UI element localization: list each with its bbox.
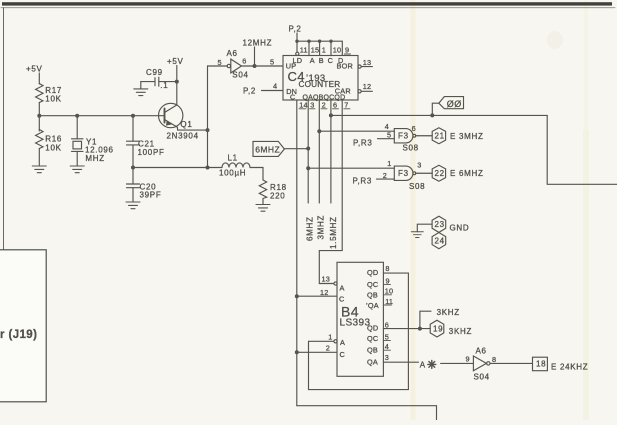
svg-text:QB: QB (367, 291, 378, 300)
svg-text:A: A (420, 360, 426, 369)
wire R18 to ground (262, 199, 264, 205)
C4 pin 10 (C) (330, 41, 332, 55)
resistor R16 (38, 116, 40, 131)
ground (node 23) (411, 232, 423, 238)
svg-text:F3: F3 (398, 132, 409, 141)
node hexagon 22 E6MHZ (432, 165, 445, 181)
svg-text:7: 7 (344, 101, 348, 110)
svg-text:S08: S08 (403, 144, 419, 153)
wire +5V to R17 (38, 73, 40, 84)
C4 pin 12 (CAR) (358, 90, 361, 93)
svg-text:C99: C99 (146, 68, 163, 77)
and-gate F3a (S08) (394, 129, 413, 143)
svg-text:’QA: ’QA (366, 301, 379, 310)
svg-text:A: A (310, 56, 315, 65)
svg-text:24: 24 (435, 237, 445, 246)
svg-text:QD: QD (367, 268, 378, 277)
svg-text:12: 12 (363, 82, 372, 91)
svg-text:3: 3 (385, 353, 389, 362)
svg-text:9: 9 (466, 354, 470, 363)
net QA vertical wire (307, 100, 309, 203)
svg-text:BOR: BOR (337, 62, 353, 71)
svg-text:21: 21 (435, 132, 445, 141)
ground (C20) (126, 202, 140, 209)
svg-text:S04: S04 (474, 373, 490, 382)
svg-text:A: A (340, 284, 345, 293)
svg-text:QC: QC (367, 334, 378, 343)
svg-text:5: 5 (218, 58, 222, 67)
resistor R18 (259, 180, 266, 199)
ground (R18) (256, 205, 270, 212)
svg-text:ØØ: ØØ (447, 99, 462, 109)
wire QB to gate F3a input 4 (319, 130, 394, 132)
wire emitter node to L1 (133, 167, 222, 169)
svg-text:18: 18 (536, 360, 546, 369)
svg-text:+5V: +5V (26, 65, 43, 74)
and-gate F3b (S08) (394, 166, 413, 180)
svg-text:QD: QD (367, 324, 378, 333)
wire F3b to node 22 (416, 172, 433, 174)
wire P,2 to load bus (296, 33, 298, 41)
svg-text:6: 6 (333, 101, 337, 110)
svg-text:QC: QC (367, 280, 378, 289)
svg-text:220: 220 (270, 192, 285, 201)
top thick border bar (2, 2, 612, 5)
svg-text:A6: A6 (227, 49, 238, 58)
svg-text:C: C (290, 94, 295, 101)
C4 pin 1 (B) (319, 41, 321, 55)
svg-text:GND: GND (450, 224, 470, 233)
bottom route net C (297, 406, 437, 420)
C4 pin 11 (LD) (296, 41, 298, 52)
svg-text:r (J19): r (J19) (0, 329, 37, 341)
svg-text:3KHZ: 3KHZ (449, 327, 472, 336)
svg-text:C: C (339, 295, 344, 304)
main bias bus wire (39, 115, 164, 117)
svg-text:6MHZ: 6MHZ (255, 145, 280, 155)
wire R17 to bus (38, 103, 40, 116)
svg-text:6: 6 (242, 56, 246, 65)
svg-text:F3: F3 (398, 169, 409, 178)
node hexagon 24 (432, 233, 446, 249)
svg-text:10K: 10K (45, 95, 61, 104)
node hexagon 19 3KHZ (430, 320, 444, 337)
ground (Y1) (70, 166, 84, 173)
svg-text:13: 13 (363, 58, 372, 67)
svg-text:2: 2 (383, 171, 387, 180)
svg-text:3: 3 (417, 161, 421, 170)
C4 load/preset pin bus (297, 40, 342, 42)
svg-text:Q1: Q1 (180, 120, 192, 129)
svg-text:S04: S04 (232, 71, 248, 80)
LD pin bubble (296, 52, 299, 55)
svg-text:100PF: 100PF (138, 148, 165, 157)
flag phi-phi (432, 103, 439, 115)
wire QA to gate F3b input 1 (308, 167, 394, 169)
capacitor C20 (131, 166, 135, 170)
wire inverter output to C4 UP pin (242, 65, 284, 67)
B4 pin 13 (A) bubble (334, 282, 337, 285)
counter C4 body (283, 56, 358, 101)
wire emitter node to inverter input (208, 65, 228, 67)
C4 pin 13 (BOR) (358, 65, 361, 68)
phi wire (QC to right edge) (331, 114, 547, 116)
svg-text:.1: .1 (160, 81, 168, 90)
net QD vertical wire + jog to B4 pin 13 (319, 100, 342, 284)
ground (C99) (140, 82, 142, 89)
node box 18 E24KHZ (533, 357, 548, 371)
svg-text:2N3904: 2N3904 (167, 132, 199, 141)
svg-text:B: B (319, 56, 324, 65)
svg-text:R16: R16 (45, 135, 62, 144)
svg-text:6: 6 (385, 320, 389, 329)
svg-text:LS393: LS393 (340, 318, 371, 329)
svg-text:A6: A6 (476, 347, 487, 356)
node hexagon 23 GND (432, 216, 446, 232)
svg-text:5: 5 (385, 332, 389, 341)
wire node 23 to ground (417, 224, 432, 232)
svg-text:10: 10 (385, 287, 394, 296)
svg-text:QA: QA (367, 358, 378, 367)
svg-text:6MHZ: 6MHZ (305, 216, 314, 241)
svg-text:5: 5 (387, 131, 391, 140)
flag 6MHZ (253, 141, 284, 156)
wire L1 to R18 (250, 168, 263, 181)
svg-text:P,2: P,2 (289, 25, 302, 34)
top thin border line (1, 7, 615, 9)
svg-text:C: C (328, 56, 333, 65)
wire inverter to box 18 (490, 362, 533, 364)
counter B4 body (337, 262, 383, 376)
svg-text:P,R3: P,R3 (353, 139, 373, 148)
svg-text:4: 4 (273, 82, 277, 91)
svg-text:1: 1 (387, 159, 391, 168)
svg-text:2: 2 (322, 101, 326, 110)
net C (clock) vertical wire (296, 100, 298, 406)
svg-text:QB: QB (367, 346, 378, 355)
svg-text:S08: S08 (409, 182, 425, 191)
net QC vertical wire (330, 100, 332, 203)
left border line (3, 8, 5, 250)
svg-text:100µH: 100µH (219, 169, 246, 178)
paper crease left (411, 0, 416, 420)
wire R16 to ground (38, 149, 40, 167)
C4 pin 15 (A) (308, 41, 310, 55)
svg-text:12: 12 (320, 288, 329, 297)
svg-text:9: 9 (345, 46, 349, 55)
B4 pin 12 (C) wire from net C (295, 294, 299, 298)
wire 6MHZ flag to QA net (284, 148, 308, 150)
svg-text:39PF: 39PF (140, 191, 162, 200)
svg-text:14: 14 (299, 101, 308, 110)
net QB vertical wire (318, 100, 320, 203)
svg-text:3KHZ: 3KHZ (437, 308, 460, 317)
svg-text:5: 5 (270, 58, 274, 67)
B4 pin 1 (A) bubble + cascade wire from pin 8 (334, 340, 337, 343)
svg-text:2: 2 (326, 344, 330, 353)
svg-text:MHZ: MHZ (85, 154, 104, 163)
B4 pin 2 (C) wire from net C (295, 350, 299, 354)
svg-text:19: 19 (433, 325, 443, 334)
svg-text:8: 8 (385, 264, 389, 273)
C4 pin 9 (D) (341, 41, 343, 55)
smudge (547, 31, 563, 49)
stub label 3KHZ (420, 311, 431, 328)
wire F3a to node 21 (416, 135, 433, 137)
svg-text:10K: 10K (45, 144, 61, 153)
crystal Y1 (76, 116, 78, 139)
svg-text:1.5MHZ: 1.5MHZ (329, 216, 338, 249)
svg-text:L1: L1 (228, 154, 238, 163)
svg-text:E 24KHZ: E 24KHZ (551, 363, 588, 372)
svg-text:A: A (340, 338, 345, 347)
svg-text:+5V: +5V (167, 57, 184, 66)
svg-text:3: 3 (310, 101, 314, 110)
svg-text:22: 22 (435, 169, 445, 178)
emitter node vertical wire (206, 128, 210, 132)
svg-text:1: 1 (322, 46, 326, 55)
svg-text:11: 11 (300, 46, 308, 55)
node hexagon 21 E3MHZ (432, 128, 445, 144)
capacitor C21 (132, 116, 134, 142)
ground (R16) (32, 166, 46, 173)
resistor R17 (36, 84, 43, 103)
svg-text:C: C (340, 350, 345, 359)
svg-text:15: 15 (311, 46, 320, 55)
paper crease right (583, 130, 589, 420)
label box (J19) (0, 250, 46, 402)
svg-text:P,2: P,2 (243, 87, 256, 96)
svg-text:10: 10 (333, 46, 342, 55)
svg-text:E 6MHZ: E 6MHZ (450, 169, 484, 178)
svg-text:P,R3: P,R3 (353, 177, 373, 186)
svg-text:12MHZ: 12MHZ (243, 39, 273, 48)
transistor Q1 (159, 103, 183, 127)
svg-text:23: 23 (435, 220, 445, 229)
svg-text:4: 4 (385, 122, 389, 131)
svg-text:13: 13 (322, 275, 331, 284)
svg-text:1: 1 (328, 332, 332, 341)
wire +5V to Q1 collector (176, 66, 178, 106)
svg-text:3MHZ: 3MHZ (317, 215, 326, 240)
svg-text:6: 6 (412, 124, 416, 133)
svg-text:E 3MHZ: E 3MHZ (450, 132, 484, 141)
wire A* to inverter (441, 362, 474, 364)
svg-text:4: 4 (385, 342, 389, 351)
